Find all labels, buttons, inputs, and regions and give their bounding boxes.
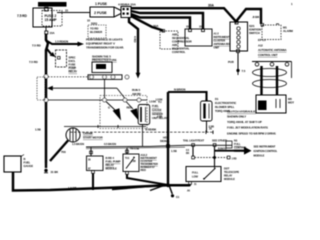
antenna coil loops — [253, 69, 287, 88]
svg-text:SPEC: SPEC — [69, 56, 76, 60]
ground stub below junction — [170, 187, 180, 199]
node S33 on feed wire — [44, 98, 48, 102]
svg-text:DOT: DOT — [224, 167, 230, 171]
arrow wire and text below box1 — [45, 27, 55, 35]
svg-text:15: 15 — [87, 19, 90, 23]
svg-text:1.5 BK: 1.5 BK — [156, 99, 163, 102]
svg-text:7.5 RD: 7.5 RD — [29, 60, 38, 64]
svg-text:INSTRUMENT: INSTRUMENT — [214, 35, 230, 39]
radio box A1 — [185, 25, 212, 47]
svg-text:GAUGE: GAUGE — [24, 164, 34, 168]
thin bus line y132 — [70, 127, 213, 135]
svg-text:TN 0.5B: TN 0.5B — [130, 147, 139, 151]
wire fan line 2 — [131, 11, 203, 29]
svg-text:4 RD: 4 RD — [133, 36, 137, 42]
svg-text:1.5B: 1.5B — [171, 149, 177, 153]
accessory drops to control box — [186, 144, 216, 167]
labels right of pump relay box — [69, 56, 78, 74]
branch arrow into pump relay box — [47, 49, 56, 57]
svg-text:D1: D1 — [215, 97, 219, 101]
svg-text:FUEL: FUEL — [24, 161, 31, 165]
svg-text:SEE OTHER: SEE OTHER — [212, 139, 227, 143]
svg-text:1.5 BR: 1.5 BR — [68, 186, 76, 190]
svg-text:TORQ ANVIL: TORQ ANVIL — [215, 109, 231, 113]
svg-text:A1 2: A1 2 — [214, 32, 220, 36]
svg-text:PUMP: PUMP — [97, 65, 106, 69]
crossing diagonal bus to junction — [150, 184, 168, 191]
transmission note text — [86, 38, 124, 50]
ignition switch S2/1 — [230, 21, 248, 53]
svg-text:1.5 RD/GN: 1.5 RD/GN — [55, 40, 68, 44]
svg-text:1 FUSE: 1 FUSE — [95, 2, 108, 6]
svg-text:EP 1.5: EP 1.5 — [258, 38, 266, 42]
wire fan line 3 — [131, 14, 190, 29]
svg-text:ALARM: ALARM — [283, 29, 294, 33]
left bottom box fuel gauge — [4, 155, 24, 173]
svg-text:4 RD/BA 15A: 4 RD/BA 15A — [118, 3, 137, 7]
antenna assembly top bar — [252, 62, 292, 67]
svg-text:ANTENNA RD: ANTENNA RD — [214, 42, 230, 46]
svg-text:LOW: LOW — [192, 174, 198, 178]
bus bar under fuel pump — [88, 75, 129, 80]
svg-text:RELAY: RELAY — [224, 174, 233, 178]
wire from left box to ground bus — [13, 172, 190, 191]
svg-text:MOT: MOT — [288, 101, 294, 105]
svg-text:B RD/BK: B RD/BK — [146, 128, 157, 132]
antenna text block — [258, 38, 287, 57]
box A bottom wire to bus — [92, 174, 94, 191]
fuel pump relay box A — [87, 148, 104, 174]
svg-text:MODULE: MODULE — [224, 177, 235, 181]
dashed wire node S32 to bus bar — [48, 76, 88, 78]
labels right of box A — [106, 156, 121, 171]
sender signal wire with arrow — [47, 86, 125, 99]
svg-text:4 BR: 4 BR — [157, 116, 162, 119]
svg-text:1 RD: 1 RD — [232, 159, 237, 161]
hot-in-run title bar — [38, 2, 67, 7]
svg-text:B: B — [24, 157, 26, 161]
labels right of control box — [224, 167, 239, 182]
node S32 on feed wire — [44, 75, 48, 79]
svg-text:RED: RED — [127, 106, 132, 110]
gauge pointer arrow 1 — [106, 102, 121, 121]
wire fan line 4 to dashed box — [131, 16, 163, 31]
svg-text:15A: 15A — [50, 31, 55, 35]
svg-text:CLUTCH HYDRAULIC: CLUTCH HYDRAULIC — [227, 110, 257, 114]
svg-text:TAIL LIGHT/TEXT: TAIL LIGHT/TEXT — [183, 139, 205, 143]
svg-text:700: 700 — [61, 150, 66, 154]
node wire y100 — [48, 99, 147, 101]
svg-text:SHOWN ONLY: SHOWN ONLY — [227, 115, 246, 119]
dashed box M1 alarm — [261, 24, 281, 40]
wire fan line 5 down with arrow — [129, 18, 140, 79]
antenna motor M5 box — [256, 95, 286, 113]
text below arrow wire — [132, 88, 141, 96]
see instrument text — [254, 145, 278, 158]
svg-text:RELAY: RELAY — [106, 163, 115, 167]
svg-text:BLOWER: BLOWER — [90, 30, 102, 34]
ground fork and dot G1 — [44, 163, 59, 174]
svg-text:START MOTOR: START MOTOR — [83, 136, 103, 140]
svg-text:CONTROL: CONTROL — [172, 50, 186, 54]
label crank motor — [83, 132, 103, 140]
svg-text:2.5B: 2.5B — [209, 125, 215, 129]
labels right of M1 box — [283, 26, 294, 34]
branch arrow to transmission note — [47, 40, 84, 47]
svg-text:ENGINE SPEED TO 6/8 RPM 2 DRIV: ENGINE SPEED TO 6/8 RPM 2 DRIVE — [227, 132, 276, 136]
svg-text:SEE INSTRUMENT: SEE INSTRUMENT — [254, 145, 276, 149]
right paragraph notes — [227, 110, 276, 136]
rising diagonal from bus to junction — [112, 185, 168, 190]
svg-text:7.5 RD: 7.5 RD — [32, 44, 41, 48]
wire fan line 1 to ignition switch — [131, 8, 261, 24]
terminal tick x168 on y146 — [167, 145, 170, 148]
main vertical 1.5B wire x168 — [167, 92, 169, 186]
labels above y146 line — [72, 136, 227, 147]
svg-text:TORQ ANVIL AT SHIFT-UP: TORQ ANVIL AT SHIFT-UP — [227, 120, 262, 124]
svg-text:1.5 BK/GN: 1.5 BK/GN — [72, 142, 84, 146]
gauge pointer arrow 2 — [126, 102, 139, 121]
fuel pump note text — [92, 55, 117, 63]
svg-text:FUEL PUMP: FUEL PUMP — [106, 160, 121, 164]
fuel pump box — [92, 62, 112, 73]
fuse box F1 outline — [33, 8, 52, 27]
svg-text:MODULE: MODULE — [254, 154, 265, 158]
fuse F2 dashed box — [42, 11, 62, 27]
svg-text:MODULE: MODULE — [106, 167, 118, 171]
labels right of box B — [141, 153, 159, 172]
D1 loop wire — [168, 92, 207, 101]
svg-text:30A: 30A — [208, 4, 215, 8]
D1 bottom wire — [207, 121, 215, 132]
dashed link under drops — [192, 156, 237, 160]
svg-text:RELAY: RELAY — [69, 70, 78, 74]
svg-text:FUEL: FUEL — [152, 104, 159, 108]
node at 125,100 — [123, 98, 127, 102]
svg-text:FUEL JET MODULATION RATE: FUEL JET MODULATION RATE — [227, 126, 268, 130]
svg-text:PUMP: PUMP — [69, 66, 77, 70]
svg-text:A12: A12 — [258, 44, 263, 48]
label S2/1 ignition switch — [249, 24, 261, 35]
telescope relay control box — [186, 167, 221, 182]
svg-text:BK: BK — [186, 153, 190, 155]
tachometer box B — [123, 147, 139, 175]
svg-text:0.5 BK/GN: 0.5 BK/GN — [104, 142, 116, 146]
labels right of radio box — [214, 32, 230, 50]
svg-text:15: 15 — [65, 9, 68, 13]
node at 104,100 — [103, 98, 107, 102]
svg-text:7.5: 7.5 — [242, 69, 246, 73]
junction dot on x168 — [166, 183, 170, 187]
svg-text:GAUGE: GAUGE — [152, 108, 162, 112]
svg-text:HOT IN RUN OR START: HOT IN RUN OR START — [39, 3, 66, 7]
svg-text:SWITCH: SWITCH — [249, 31, 260, 35]
svg-text:TRANSMISSION FOR GEAR.: TRANSMISSION FOR GEAR. — [86, 46, 124, 50]
control box ground wire — [187, 182, 197, 193]
dashed connector box left of feed wire — [37, 77, 45, 100]
fuel gauge sender resistor — [138, 105, 150, 125]
svg-text:15 AMP: 15 AMP — [45, 18, 58, 22]
svg-text:RED: RED — [141, 168, 146, 172]
see instrument arrow — [215, 147, 252, 155]
connector X1 — [118, 3, 137, 18]
svg-text:N1: N1 — [234, 139, 238, 143]
svg-text:FULL: FULL — [192, 171, 199, 175]
sender bottom wire — [143, 125, 157, 147]
node at 139,100 — [137, 98, 141, 102]
sender dashed enclosure — [100, 96, 147, 129]
svg-text:N BR/GN: N BR/GN — [174, 88, 185, 92]
label M5 motor — [288, 97, 294, 105]
svg-text:B RD 4: B RD 4 — [106, 156, 115, 160]
wire fusebox to fuse strip — [57, 9, 90, 13]
svg-text:2 FUSE: 2 FUSE — [94, 11, 107, 15]
clutch solenoid D1 — [201, 99, 213, 121]
labels right of sender — [152, 100, 167, 120]
vertical link x104 — [104, 79, 106, 100]
svg-text:ELECTROSTATIC: ELECTROSTATIC — [215, 101, 236, 105]
svg-text:7.5 RD: 7.5 RD — [17, 14, 27, 18]
antenna mast wires — [262, 62, 292, 96]
svg-text:EXCL: EXCL — [69, 59, 76, 63]
svg-text:AUTOMATIC ANTENNA: AUTOMATIC ANTENNA — [258, 48, 287, 52]
svg-text:.8 BK: .8 BK — [252, 15, 260, 19]
svg-text:PUR: PUR — [228, 60, 234, 64]
labels right of left bottom box — [24, 157, 34, 168]
fuse element symbol — [45, 7, 49, 11]
thin bus line y126.5 — [64, 125, 146, 128]
motor ground diagonal — [50, 141, 68, 162]
starter motor M — [66, 128, 80, 142]
dashed box A8 compressor — [160, 30, 178, 50]
svg-text:IGNITION CONTROL: IGNITION CONTROL — [254, 149, 278, 153]
svg-text:G: G — [108, 106, 110, 110]
labels right of D1 — [215, 97, 236, 113]
svg-text:FUSE: FUSE — [69, 63, 76, 67]
N1 fuel control module note — [226, 139, 247, 154]
svg-text:30A: 30A — [153, 24, 159, 28]
svg-text:CLUSTER: CLUSTER — [214, 39, 226, 43]
svg-text:CONTROL UNIT: CONTROL UNIT — [258, 53, 278, 57]
svg-text:UNIT: UNIT — [214, 46, 220, 50]
main feed wire down from fuse box — [46, 34, 48, 163]
text under strip — [87, 19, 98, 26]
long accessory line y146 — [86, 145, 232, 148]
svg-text:PROTECTED FUSE: PROTECTED FUSE — [92, 58, 117, 62]
dashed box under strip — [88, 25, 106, 38]
labels right of A8 box — [172, 33, 192, 55]
svg-text:FULL: FULL — [234, 142, 241, 146]
pump relay small box — [56, 50, 67, 67]
box B bottom wire diagonal to junction — [127, 175, 168, 186]
wire below ignition switch to ground — [228, 53, 246, 76]
svg-text:BLOWER SPILL: BLOWER SPILL — [215, 105, 235, 109]
svg-text:31 BK: 31 BK — [51, 170, 60, 174]
svg-text:TELESCOPE: TELESCOPE — [224, 170, 239, 174]
fusible link strip — [90, 7, 121, 17]
svg-text:1.5B: 1.5B — [35, 128, 41, 132]
